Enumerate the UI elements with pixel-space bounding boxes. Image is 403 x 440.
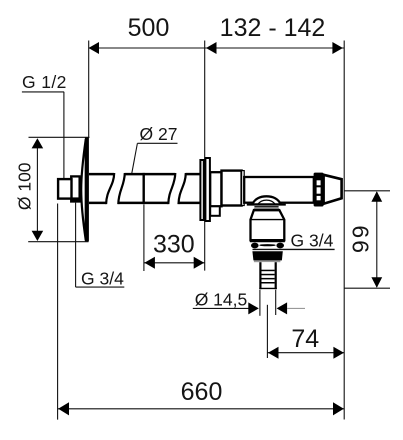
outer wall plate right bar bbox=[205, 158, 210, 221]
nipple left extension line bbox=[259, 290, 261, 316]
dimension 330 left arrow bbox=[144, 257, 155, 269]
label D27 underline bbox=[137, 142, 177, 144]
pipe segment 1 end break curve bbox=[106, 173, 114, 204]
D14.5 left-pointing arrow bbox=[277, 302, 288, 314]
nipple stripe 3 bbox=[262, 278, 275, 280]
pipe segment 3 start break curve bbox=[179, 173, 186, 204]
extension line middle (outer wall face, x=204.7) bbox=[204, 41, 206, 271]
cap bottom thick edge bbox=[250, 239, 285, 242]
dimension D100 up arrow bbox=[32, 138, 44, 148]
label G 1/2 underline bbox=[22, 91, 64, 93]
dimension 66 down arrow bbox=[371, 277, 382, 288]
dimension 330 line bbox=[144, 262, 205, 264]
nipple right extension line bbox=[275, 290, 277, 315]
nipple left wall bbox=[259, 262, 261, 289]
nut bottom gray band bbox=[254, 261, 281, 263]
extension line right (spout tip, x=344.2) bbox=[343, 41, 345, 420]
valve collar lower tab bbox=[210, 206, 220, 216]
label G 3/4 left underline bbox=[76, 286, 125, 288]
valve barrel long bbox=[244, 177, 314, 203]
dimension 330 right arrow bbox=[194, 257, 205, 269]
label G 1/2 leader bbox=[63, 92, 65, 189]
dimension 132-142 line bbox=[205, 47, 345, 49]
dimension D100 bottom reference line bbox=[28, 241, 88, 243]
socket block bbox=[71, 176, 79, 201]
outlet top flange line bbox=[247, 204, 286, 206]
spout cone bbox=[324, 175, 342, 204]
rib ring bbox=[314, 173, 324, 207]
dimension 660 right arrow bbox=[333, 402, 344, 415]
dimension 132-142 right arrow bbox=[332, 42, 343, 54]
dimension 500 line bbox=[89, 47, 205, 49]
dimension D100 top reference line bbox=[29, 136, 90, 138]
extension line left (wall face, x=88.7) bbox=[88, 41, 90, 138]
svg-text:Ø 14,5: Ø 14,5 bbox=[195, 289, 248, 309]
pipe segment 3 top edge bbox=[186, 173, 201, 176]
outlet axis extension line bbox=[266, 305, 268, 358]
rib ring slot 1 bbox=[317, 180, 321, 185]
cap ring line 1 bbox=[254, 206, 278, 208]
pipe segment 2 top edge bbox=[125, 173, 176, 176]
dimension 66 bottom reference line bbox=[344, 287, 390, 289]
dimension 66 vertical line bbox=[376, 192, 378, 287]
thread-socket corner block bbox=[72, 197, 79, 202]
nipple bottom edge bbox=[259, 287, 277, 289]
nipple stripe 1 bbox=[262, 270, 275, 272]
D14.5 arrow gray tail bbox=[287, 307, 305, 309]
pipe segment 3 bottom edge bbox=[179, 202, 201, 205]
nipple stripe 2 bbox=[262, 274, 275, 276]
dimension 330 left extension line bbox=[143, 205, 145, 272]
dimension D100 down arrow bbox=[32, 231, 44, 241]
outlet dome bbox=[252, 196, 281, 204]
svg-text:66: 66 bbox=[347, 225, 373, 255]
ear ring middle lens bbox=[259, 244, 275, 246]
label G 3/4 left leader bbox=[75, 203, 77, 288]
label D14.5 right-pointing arrow bbox=[248, 302, 258, 314]
dimension 74 right arrow bbox=[333, 347, 344, 359]
dimension D100 vertical line bbox=[36, 146, 38, 233]
cap body bbox=[251, 210, 285, 240]
outer wall plate left bar bbox=[200, 160, 203, 220]
pipe segment 1 top edge bbox=[89, 173, 114, 176]
G1/2 thread block bbox=[58, 179, 71, 199]
thread ring line / G3/4 right underline bbox=[253, 248, 335, 250]
wall flange bar bbox=[85, 138, 89, 242]
outlet dome inner line bbox=[258, 200, 276, 204]
pipe segment 2 end break curve bbox=[168, 173, 175, 204]
nipple stripe 4 bbox=[262, 282, 275, 284]
wall flange curve bbox=[81, 139, 86, 240]
rib ring slot 2 bbox=[317, 187, 321, 193]
svg-text:Ø 100: Ø 100 bbox=[15, 162, 35, 210]
ear ring right ear bbox=[276, 243, 284, 249]
pipe segment 2 bottom edge bbox=[118, 202, 168, 205]
ear ring left ear bbox=[251, 243, 259, 249]
dimension 66 top reference line bbox=[344, 190, 390, 192]
svg-text:G 1/2: G 1/2 bbox=[22, 72, 67, 92]
cap shoulder line bbox=[251, 219, 285, 221]
dimension 66 up arrow bbox=[371, 191, 382, 202]
dimension 660 left extension line bbox=[57, 204, 59, 420]
svg-text:74: 74 bbox=[291, 325, 319, 353]
dimension 132-142 left arrow bbox=[206, 42, 217, 54]
label D14.5 underline bbox=[193, 307, 250, 309]
valve collar bbox=[210, 172, 221, 206]
hose union nut bbox=[252, 251, 282, 260]
pipe joint ring bbox=[142, 173, 144, 204]
nipple right wall bbox=[275, 262, 277, 289]
pipe segment 2 start break curve bbox=[118, 173, 125, 204]
hose nipple body bbox=[259, 262, 276, 289]
valve ring double line bbox=[242, 171, 245, 206]
dimension 660 line bbox=[58, 408, 345, 410]
label D27 leader bbox=[130, 143, 138, 185]
dimension 74 left arrow bbox=[268, 347, 279, 359]
valve barrel first bbox=[222, 171, 242, 206]
dimension 500 left arrow bbox=[89, 42, 100, 54]
pipe body fill bbox=[89, 174, 200, 203]
cap ring line 2 bbox=[254, 208, 280, 210]
svg-text:500: 500 bbox=[128, 14, 170, 42]
dimension 74 line bbox=[267, 352, 344, 354]
svg-text:G 3/4: G 3/4 bbox=[291, 230, 334, 250]
svg-text:660: 660 bbox=[181, 378, 223, 406]
svg-text:132 - 142: 132 - 142 bbox=[220, 14, 326, 42]
rib ring slot 3 bbox=[317, 196, 321, 200]
svg-text:G 3/4: G 3/4 bbox=[81, 268, 124, 288]
pipe segment 1 bottom edge bbox=[89, 202, 106, 205]
svg-text:330: 330 bbox=[153, 231, 195, 259]
svg-text:Ø 27: Ø 27 bbox=[140, 124, 178, 144]
dimension 660 left arrow bbox=[58, 402, 69, 415]
